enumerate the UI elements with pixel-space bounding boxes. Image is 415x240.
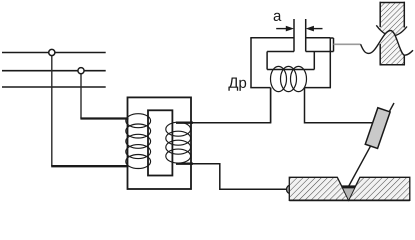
electrode <box>349 103 394 186</box>
air gap dimension a: label <box>274 13 282 21</box>
supply line L3 <box>2 86 106 88</box>
workpiece ground clamp terminal <box>287 185 296 194</box>
cavity right wall <box>313 52 315 70</box>
wire to primary top lead <box>80 117 128 119</box>
dimension line left with arrow <box>276 26 322 32</box>
weld pool <box>341 185 356 188</box>
electrode holder <box>365 108 390 149</box>
workpiece <box>289 177 410 200</box>
supply line L2 <box>2 70 106 72</box>
wire from terminal 1 down <box>51 56 53 166</box>
cavity left wall <box>266 52 268 70</box>
rod block bottom <box>306 51 334 53</box>
box left edge <box>250 38 252 88</box>
wire from terminal 2 down <box>80 74 82 119</box>
choke Др label <box>228 77 246 90</box>
wire secondary top to choke <box>191 88 271 123</box>
choke core box <box>250 19 333 88</box>
cavity bottom <box>267 69 314 71</box>
weld groove fill <box>343 188 355 200</box>
rod block right edge <box>333 38 335 52</box>
secondary top lead <box>176 121 193 123</box>
transformer T1 core outer <box>128 97 192 189</box>
transformer T1 core window <box>148 110 172 175</box>
rod to spring <box>334 43 361 45</box>
wall lower block hatched under spring crest <box>360 31 413 65</box>
terminal tap 2 <box>78 68 84 74</box>
choke left lead wire <box>270 88 272 123</box>
cavity top left <box>267 51 294 53</box>
secondary winding W2 <box>166 122 191 163</box>
box top edge right part <box>306 37 331 39</box>
wall gap smile arc <box>376 25 407 36</box>
rod block top <box>330 37 333 39</box>
choke winding <box>271 66 307 91</box>
box right edge <box>329 38 331 88</box>
wall lower block edges <box>380 44 406 65</box>
primary winding W1 <box>126 114 151 169</box>
supply line L1 <box>2 52 106 54</box>
dimension line right with arrow <box>313 28 323 30</box>
spring wave <box>361 31 413 56</box>
box top edge left part <box>250 37 294 39</box>
secondary bottom lead <box>176 162 193 164</box>
movable core left face <box>293 19 295 52</box>
movable core right face <box>305 19 307 52</box>
workpiece bottom edge <box>289 199 410 201</box>
box bottom edge right part <box>305 87 331 89</box>
choke right lead wire to electrode <box>305 88 376 123</box>
wire secondary bottom to workpiece <box>191 164 288 190</box>
terminal tap 1 <box>49 49 55 55</box>
wire to primary bottom lead <box>51 165 128 167</box>
wall upper block <box>380 3 404 37</box>
box bottom edge left part <box>250 87 270 89</box>
